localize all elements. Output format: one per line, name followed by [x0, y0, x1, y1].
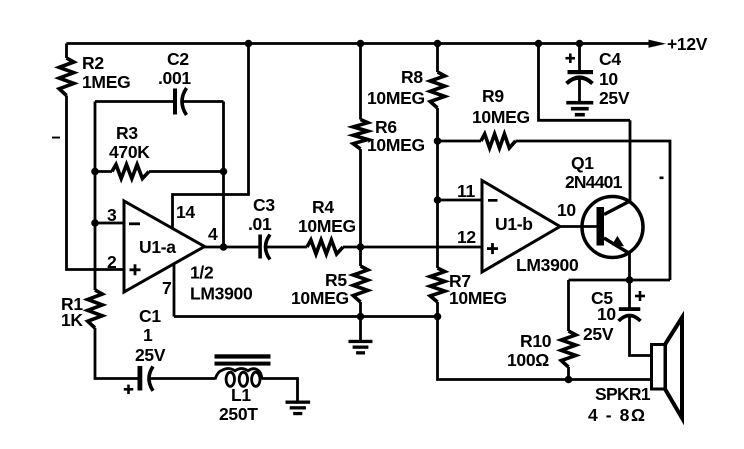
svg-text:R4: R4 — [312, 197, 334, 217]
svg-text:U1-a: U1-a — [139, 237, 176, 257]
svg-text:470K: 470K — [109, 142, 150, 162]
svg-text:R9: R9 — [482, 86, 504, 106]
svg-text:7: 7 — [162, 278, 171, 298]
svg-text:.01: .01 — [248, 214, 272, 234]
svg-text:10MEG: 10MEG — [367, 88, 425, 108]
svg-text:2: 2 — [107, 252, 117, 272]
svg-text:4: 4 — [208, 224, 218, 244]
svg-text:14: 14 — [176, 202, 195, 222]
svg-text:10: 10 — [557, 200, 576, 220]
svg-text:10: 10 — [597, 304, 616, 324]
svg-text:C2: C2 — [167, 49, 189, 69]
svg-text:R8: R8 — [401, 67, 423, 87]
svg-text:LM3900: LM3900 — [516, 255, 579, 275]
svg-text:L1: L1 — [231, 385, 251, 405]
svg-text:10MEG: 10MEG — [472, 107, 530, 127]
svg-text:R5: R5 — [325, 270, 347, 290]
svg-text:SPKR1: SPKR1 — [595, 384, 651, 404]
svg-text:C4: C4 — [599, 49, 621, 69]
svg-text:R10: R10 — [520, 331, 552, 351]
svg-text:1MEG: 1MEG — [82, 72, 130, 92]
svg-text:11: 11 — [457, 181, 475, 201]
svg-text:LM3900: LM3900 — [190, 284, 253, 304]
svg-text:R6: R6 — [375, 117, 397, 137]
svg-text:3: 3 — [107, 205, 117, 225]
svg-text:100Ω: 100Ω — [507, 350, 549, 370]
svg-text:1: 1 — [143, 325, 153, 345]
svg-text:4 - 8Ω: 4 - 8Ω — [588, 405, 647, 425]
svg-text:10: 10 — [599, 69, 618, 89]
svg-text:25V: 25V — [583, 324, 614, 344]
svg-text:10MEG: 10MEG — [298, 216, 356, 236]
svg-text:C3: C3 — [253, 195, 275, 215]
svg-text:250T: 250T — [219, 404, 258, 424]
svg-text:10MEG: 10MEG — [367, 135, 425, 155]
svg-text:10MEG: 10MEG — [449, 288, 507, 308]
svg-text:R2: R2 — [82, 53, 104, 73]
svg-text:12: 12 — [457, 227, 476, 247]
svg-text:1K: 1K — [61, 310, 83, 330]
svg-text:C1: C1 — [139, 306, 161, 326]
svg-text:Q1: Q1 — [571, 153, 594, 173]
svg-text:.001: .001 — [158, 68, 191, 88]
svg-text:R3: R3 — [116, 123, 138, 143]
svg-text:10MEG: 10MEG — [291, 288, 349, 308]
svg-text:25V: 25V — [599, 88, 630, 108]
svg-text:+12V: +12V — [667, 34, 708, 54]
svg-text:1/2: 1/2 — [190, 263, 214, 283]
svg-text:2N4401: 2N4401 — [565, 172, 623, 192]
svg-text:25V: 25V — [135, 345, 166, 365]
svg-text:U1-b: U1-b — [495, 214, 533, 234]
